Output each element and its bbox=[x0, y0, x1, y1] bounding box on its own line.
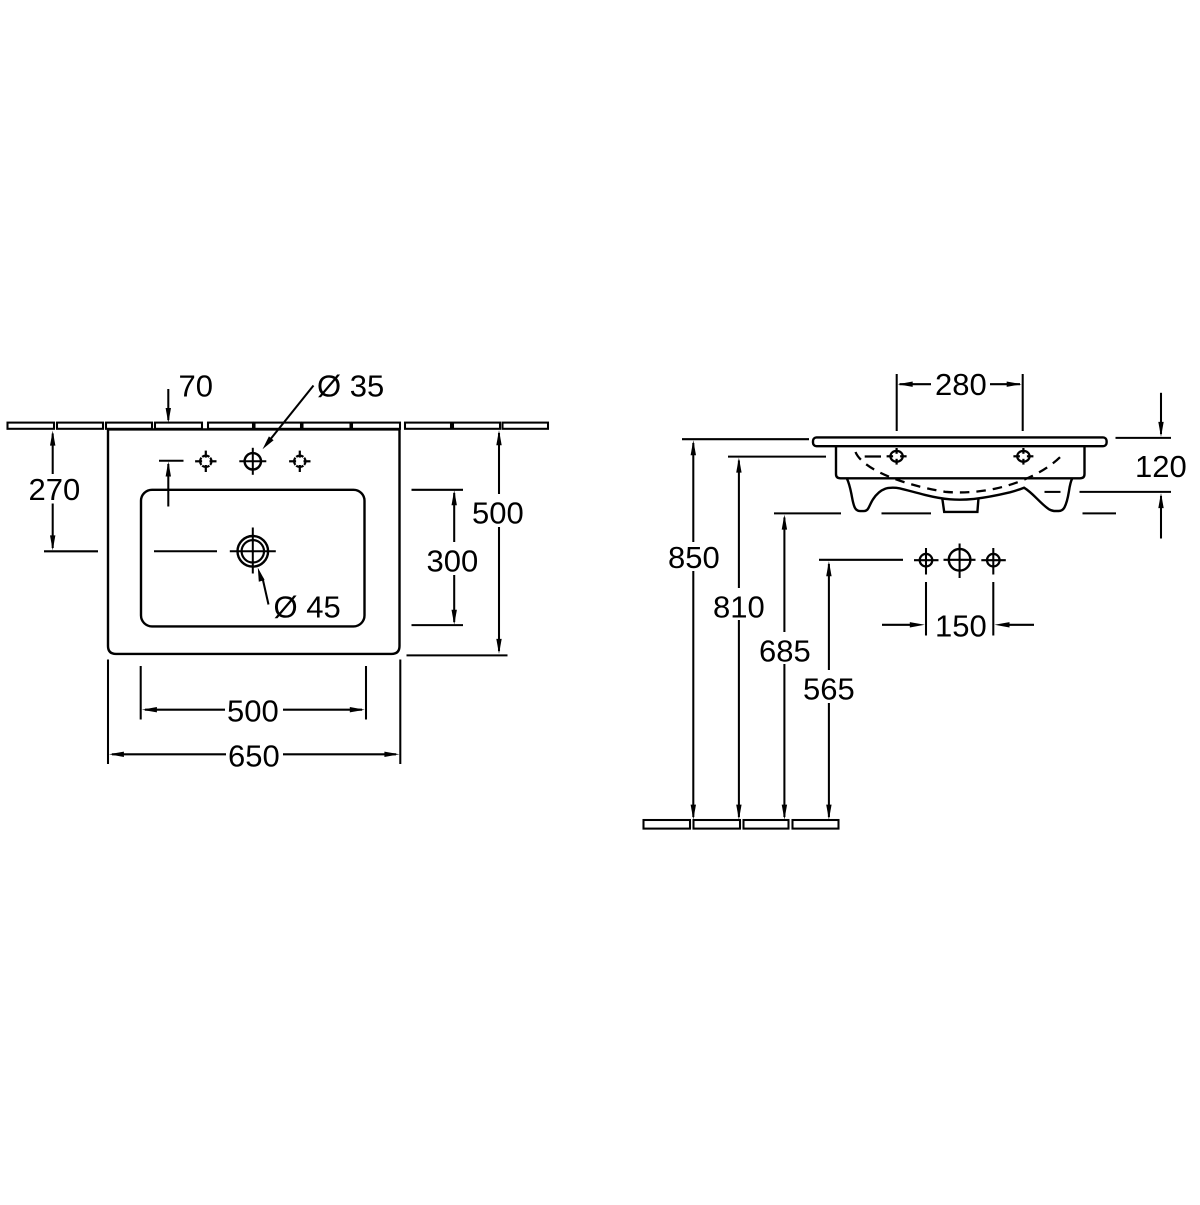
dimension 685 vertical line bbox=[782, 515, 787, 820]
plate top extension line left bbox=[682, 438, 809, 440]
dimension 650 line and arrows bbox=[109, 752, 400, 757]
drain centre line to left bbox=[154, 550, 217, 552]
svg-text:270: 270 bbox=[29, 472, 81, 507]
wall section line (segmented) top view bbox=[8, 423, 549, 429]
leader line for Ø35 bbox=[263, 386, 314, 450]
leader line for Ø45 bbox=[258, 568, 269, 605]
faucet hole row: left small circle bbox=[914, 548, 939, 575]
left faucet hole symbol (crosshair) bbox=[195, 451, 216, 472]
dimension 120 lower arrow bbox=[1158, 493, 1163, 538]
top ceramic plate bbox=[813, 437, 1107, 446]
svg-text:300: 300 bbox=[427, 544, 479, 579]
fixing hole extension line left bbox=[728, 456, 826, 458]
dimension 565 vertical line bbox=[826, 561, 831, 819]
dimension 280 witness lines bbox=[896, 374, 898, 431]
drain hole (Ø45) double circle bbox=[230, 528, 276, 574]
right fixing hole bbox=[1013, 448, 1033, 465]
center faucet hole circle (Ø35) bbox=[239, 448, 266, 475]
basin body rectangle bbox=[836, 446, 1085, 478]
dimension 810 vertical line bbox=[736, 458, 741, 820]
left fixing hole bbox=[887, 448, 907, 465]
faucet hole row: right small circle bbox=[981, 548, 1006, 575]
dimension 650 witness lines bbox=[107, 660, 109, 765]
basin bottom extension line right bbox=[407, 654, 508, 656]
svg-text:120: 120 bbox=[1135, 449, 1187, 484]
svg-text:850: 850 bbox=[668, 540, 720, 575]
floor line (segmented) bbox=[644, 820, 839, 829]
svg-text:810: 810 bbox=[713, 590, 765, 625]
dimension 150 witness lines bbox=[925, 582, 927, 636]
basin outer rectangle (top view) bbox=[108, 429, 400, 654]
svg-text:650: 650 bbox=[228, 739, 280, 774]
svg-text:Ø 45: Ø 45 bbox=[274, 590, 341, 625]
svg-text:500: 500 bbox=[227, 694, 279, 729]
dimension 120 upper arrow bbox=[1158, 393, 1163, 437]
right faucet hole symbol (crosshair) bbox=[289, 451, 310, 472]
hidden rear edge dash left bbox=[865, 455, 881, 457]
drain outlet box bbox=[942, 498, 978, 512]
dimension 70 upper arrow bbox=[166, 389, 171, 423]
dimension 500 (bottom, horizontal) witness lines bbox=[140, 666, 142, 720]
dimension 300 extension lines bbox=[412, 489, 464, 491]
foot bottom extension line segments bbox=[774, 512, 841, 514]
svg-text:565: 565 bbox=[803, 672, 855, 707]
faucet hole row: centre circle bbox=[944, 544, 976, 579]
dimension 280 line and arrows bbox=[898, 382, 1022, 387]
svg-text:500: 500 bbox=[472, 496, 524, 531]
underside: legs and bowl curve bbox=[847, 478, 1073, 511]
dimension 70 lower arrow and hole centre tick bbox=[159, 461, 184, 507]
dimension 500 (right, vertical) bbox=[496, 430, 501, 654]
dimension 850 vertical line bbox=[691, 440, 696, 819]
plate top extension line bbox=[1116, 437, 1172, 439]
svg-text:70: 70 bbox=[179, 369, 213, 404]
dimension 300 vertical line bbox=[452, 490, 457, 625]
basin inner bowl rounded rectangle bbox=[141, 490, 365, 627]
svg-text:Ø 35: Ø 35 bbox=[317, 369, 384, 404]
hidden bowl outline (dashed) bbox=[856, 452, 1065, 492]
svg-text:280: 280 bbox=[935, 367, 987, 402]
dimension 270 vertical line bbox=[50, 431, 55, 551]
faucet row extension line left bbox=[819, 559, 903, 561]
svg-text:150: 150 bbox=[935, 609, 987, 644]
svg-text:685: 685 bbox=[759, 634, 811, 669]
dimension 150 line and arrows bbox=[882, 622, 1034, 627]
dimension 270 bottom extension line bbox=[44, 550, 98, 552]
bowl bottom extension line bbox=[1045, 491, 1061, 493]
dimension 500 bottom line and arrows bbox=[142, 707, 365, 712]
